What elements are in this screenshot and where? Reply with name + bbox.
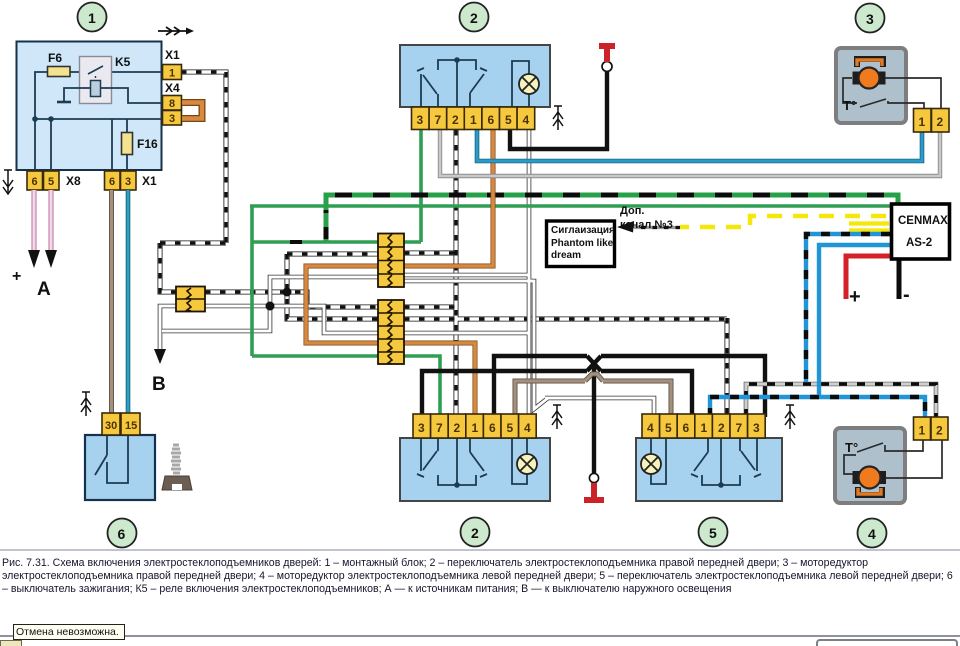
svg-text:4: 4 xyxy=(647,421,654,435)
comp3 internal wires and thermal switch xyxy=(843,78,941,108)
wire: comp1 F16 leads to bottom X1 pin3 xyxy=(126,119,128,171)
wire: white net (to arrow B, splice, comp2 pin4, comp5 pin4) xyxy=(160,130,654,417)
comp3 brush bracket xyxy=(857,59,883,67)
wire: pink feed wires from X8 to arrows A xyxy=(34,190,51,251)
shield symbol left of X8 xyxy=(3,170,13,194)
flow arrow symbol near comp1 xyxy=(158,27,187,35)
svg-text:+: + xyxy=(849,286,861,308)
caption line 3 xyxy=(2,583,732,595)
comp4 connector pin 2 xyxy=(931,417,948,440)
svg-text:B: B xyxy=(152,374,166,395)
splice connector pair near B (2 cells) xyxy=(176,287,205,312)
fuse F6 xyxy=(48,67,71,77)
svg-text:6: 6 xyxy=(109,176,115,188)
comp3 connector pin 1 xyxy=(914,109,932,133)
svg-text:5: 5 xyxy=(665,421,672,435)
svg-text:3: 3 xyxy=(125,176,131,188)
wire: black crossover pair between comp2-bottom and comp5 xyxy=(422,356,765,417)
wire: blue/black striped annotation from CENMAX to gray line xyxy=(806,234,890,382)
relay K5 coil xyxy=(91,81,101,97)
comp4 motor terminals xyxy=(853,471,861,484)
splice connector stack B (5 cells) xyxy=(378,300,404,364)
svg-text:1: 1 xyxy=(701,421,708,435)
wire: black ground annotation from CENMAX xyxy=(897,259,902,299)
comp2-bottom illumination lamp xyxy=(517,454,537,474)
wire: striped white/black net S1 trunk from X1 pin1 xyxy=(160,72,727,417)
component 6: ignition switch body xyxy=(85,435,155,500)
wire: brown from X1 pin6 to ignition 30 xyxy=(109,190,114,413)
svg-text:T°: T° xyxy=(845,440,858,455)
svg-text:Phantom like: Phantom like xyxy=(551,238,614,249)
separator line bottom xyxy=(0,635,960,637)
Phantom alarm annotation box xyxy=(547,221,615,267)
wire: orange net comp2-top pin6 to comp2-bottom pin1 xyxy=(306,130,493,414)
comp2-bottom connector pins 3 7 2 1 6 5 4 xyxy=(413,414,536,438)
svg-text:A: A xyxy=(37,279,51,300)
caption line 2 xyxy=(2,570,953,582)
junction dot A1 on striped net xyxy=(283,288,292,297)
ground symbol in comp1 xyxy=(57,101,71,104)
wire: comp1 from F6 right to X1 pin1 xyxy=(70,71,163,73)
svg-text:6: 6 xyxy=(118,526,126,542)
power source symbol top (red T with circle) xyxy=(599,45,615,72)
wire: comp1 internal bus from F6 left down to X8 pins xyxy=(35,72,162,171)
comp2-top internal switch circuit xyxy=(417,60,487,107)
arrow heads to power source A xyxy=(28,250,57,268)
svg-text:2: 2 xyxy=(452,113,459,127)
svg-text:2: 2 xyxy=(937,115,944,129)
svg-text:15: 15 xyxy=(125,420,137,432)
label circle 1 xyxy=(78,3,107,32)
small yellow box bottom corner xyxy=(0,640,22,646)
CENMAX AS-2 alarm unit box xyxy=(892,204,950,259)
connector pin 30 xyxy=(102,413,120,435)
svg-text:+: + xyxy=(12,268,21,285)
svg-text:5: 5 xyxy=(48,176,54,188)
svg-text:1: 1 xyxy=(470,113,477,127)
ignition key icon xyxy=(162,445,192,490)
label circle 5 xyxy=(699,518,728,547)
label circle 2 top xyxy=(460,3,489,32)
wire: red power annotation from CENMAX xyxy=(846,256,890,299)
wire: gray/black striped comp5 pin7 to comp4 pin2 xyxy=(746,384,936,417)
comp4 connector pin 1 xyxy=(914,417,931,440)
wire: extra channel gray lead with arrow xyxy=(634,226,680,229)
button bottom right xyxy=(816,639,958,646)
svg-text:30: 30 xyxy=(105,420,117,432)
caption line 1 xyxy=(2,557,868,569)
svg-text:K5: K5 xyxy=(115,55,131,69)
connector X4 pin 8 xyxy=(163,96,182,111)
svg-text:F6: F6 xyxy=(48,51,62,65)
svg-text:2: 2 xyxy=(470,10,478,26)
svg-text:5: 5 xyxy=(709,525,717,541)
svg-text:Сиглаизация: Сиглаизация xyxy=(551,225,615,236)
ignition switch contacts xyxy=(95,435,128,483)
connector X1 pin 1 (right) xyxy=(163,65,182,80)
svg-text:7: 7 xyxy=(435,113,442,127)
svg-text:1: 1 xyxy=(88,10,96,26)
component 2 top: right door window switch body xyxy=(400,45,550,107)
svg-text:6: 6 xyxy=(489,421,496,435)
svg-text:X8: X8 xyxy=(66,174,81,188)
svg-text:3: 3 xyxy=(866,11,874,27)
component 4: left door motor-reducer body xyxy=(835,417,948,503)
svg-text:канал №3: канал №3 xyxy=(620,219,673,231)
svg-text:1: 1 xyxy=(472,421,479,435)
comp2-bottom internal switch circuit xyxy=(417,438,487,485)
svg-text:X1: X1 xyxy=(165,48,180,62)
svg-text:2: 2 xyxy=(454,421,461,435)
wire: comp1 vertical to bottom X1 pin6 xyxy=(111,119,113,171)
comp5 lamp leads xyxy=(651,438,666,484)
junction dots comp1 xyxy=(32,116,38,122)
connector X8 pin 5 xyxy=(44,171,60,190)
svg-text:1: 1 xyxy=(169,68,175,80)
svg-text:2: 2 xyxy=(718,421,725,435)
connector X1 bottom pin 6 xyxy=(105,171,121,190)
wire: blue solid annotation from CENMAX xyxy=(819,245,890,395)
svg-text:7: 7 xyxy=(736,421,743,435)
splice connector stack A (4 cells) xyxy=(378,234,404,288)
label circle 3 xyxy=(856,4,885,33)
svg-text:6: 6 xyxy=(488,113,495,127)
svg-text:5: 5 xyxy=(505,113,512,127)
svg-text:3: 3 xyxy=(417,113,424,127)
wire: yellow stub annotations at CENMAX xyxy=(849,224,889,231)
component 5: left door window switch body xyxy=(636,438,782,501)
svg-text:7: 7 xyxy=(436,421,443,435)
comp2-top connector pins 3 7 2 1 6 5 4 xyxy=(412,107,535,130)
comp5 internal switch circuit xyxy=(691,438,761,485)
svg-text:Доп.: Доп. xyxy=(620,205,644,217)
svg-text:dream: dream xyxy=(551,250,581,261)
label circle 2 bottom xyxy=(461,518,490,547)
svg-text:2: 2 xyxy=(471,525,479,541)
svg-text:F16: F16 xyxy=(137,137,158,151)
orange jumper loop X4 pin8 to pin3 xyxy=(182,103,202,119)
wire: blue/black striped comp5 pin1 to comp4 pin1 xyxy=(710,397,925,417)
component 3: right door motor-reducer body xyxy=(836,48,949,132)
svg-text:1: 1 xyxy=(919,424,926,438)
svg-text:AS-2: AS-2 xyxy=(906,237,932,249)
wire: gray comp2-top pin7 to comp3 pin2 xyxy=(440,130,940,176)
svg-text:1: 1 xyxy=(919,115,926,129)
connector X4 pin 3 xyxy=(163,111,182,126)
svg-text:-: - xyxy=(903,284,910,306)
arrow B head xyxy=(154,349,166,364)
connector pin 15 xyxy=(121,413,140,435)
svg-text:4: 4 xyxy=(868,526,876,542)
wire: green/black dashed annotation to CENMAX top xyxy=(290,195,898,242)
fuse F16 xyxy=(122,133,133,155)
svg-text:2: 2 xyxy=(936,424,943,438)
svg-text:3: 3 xyxy=(169,113,175,125)
comp2-top illumination lamp xyxy=(519,74,539,94)
comp4 brush bracket xyxy=(858,487,882,495)
svg-text:3: 3 xyxy=(753,421,760,435)
shield symbol left of ignition pins xyxy=(81,392,91,416)
shield symbol right of comp2-bottom pins xyxy=(552,405,562,429)
svg-text:8: 8 xyxy=(169,98,175,110)
svg-text:4: 4 xyxy=(523,113,530,127)
svg-text:T°: T° xyxy=(843,98,856,113)
svg-text:4: 4 xyxy=(524,421,531,435)
svg-text:X1: X1 xyxy=(142,174,157,188)
wire: brown comp2-bottom pin5 to comp5 pin5 with hop xyxy=(515,374,671,417)
wire: coil right to X4 pin8 xyxy=(101,88,163,103)
relay K5 contact xyxy=(88,66,103,74)
wire: teal from X1 pin3 to ignition 15 xyxy=(126,190,131,413)
component 1: mounting block body xyxy=(17,42,162,171)
svg-text:CENMAX: CENMAX xyxy=(898,215,948,227)
connector X8 pin 6 xyxy=(27,171,43,190)
svg-text:5: 5 xyxy=(507,421,514,435)
wire: coil left to ground xyxy=(64,88,90,101)
svg-text:6: 6 xyxy=(683,421,690,435)
connector X1 bottom pin 3 xyxy=(121,171,137,190)
power source symbol bottom (circle with red T) xyxy=(584,473,604,500)
comp3 motor terminals xyxy=(853,72,861,85)
shield symbol right of comp5 pins xyxy=(785,405,795,429)
wire: blue comp2-top pin1 to comp3 pin1 xyxy=(477,130,922,161)
junction dot on white net xyxy=(266,302,275,311)
shield symbol right of comp2-top pins xyxy=(553,106,563,130)
svg-text:X4: X4 xyxy=(165,81,180,95)
wire: yellow dashed annotation channel to CENMAX xyxy=(680,216,886,227)
label circle 6 xyxy=(108,519,137,548)
wire: black ground drop from crossover xyxy=(592,366,596,474)
separator line under diagram xyxy=(0,549,960,551)
label circle 4 xyxy=(858,519,887,548)
comp3 motor xyxy=(859,68,880,89)
svg-text:3: 3 xyxy=(418,421,425,435)
tooltip box bottom left xyxy=(13,624,125,640)
comp4 motor xyxy=(859,467,881,489)
comp2-top lamp leads xyxy=(512,61,529,107)
wire: green net (comp2 top pin3, bus, stack B, comp2 bottom pin7) xyxy=(250,130,890,414)
comp5 connector pins 4 5 6 1 2 7 3 xyxy=(642,414,765,438)
comp5 illumination lamp xyxy=(641,454,661,474)
comp2-bottom lamp leads xyxy=(512,438,527,484)
svg-text:6: 6 xyxy=(32,176,38,188)
component 2 bottom: right door window switch body xyxy=(400,438,550,501)
comp3 connector pin 2 xyxy=(932,109,950,133)
wire: black ground of comp2-top pin5 to power symbol xyxy=(510,72,607,149)
relay K5 box xyxy=(80,57,112,104)
